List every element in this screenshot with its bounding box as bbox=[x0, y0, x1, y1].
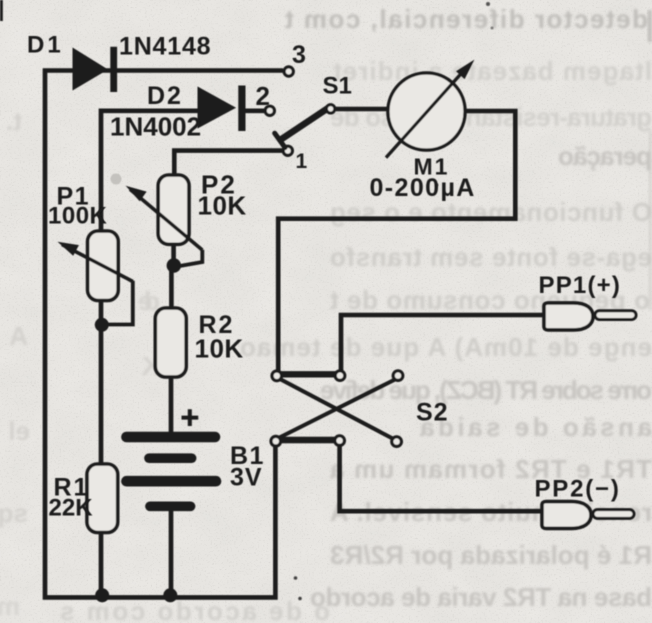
svg-text:3V: 3V bbox=[230, 464, 263, 492]
svg-text:gratura-resistando, peso de: gratura-resistando, peso de bbox=[330, 102, 652, 132]
svg-text:base na TR2 varia de acordo: base na TR2 varia de acordo bbox=[310, 582, 652, 612]
svg-text:enge de 10mA) A que de temao: enge de 10mA) A que de temao bbox=[240, 332, 652, 362]
svg-text:S2: S2 bbox=[416, 399, 449, 427]
svg-text:PP1(+): PP1(+) bbox=[539, 272, 622, 299]
svg-text:ltagem bazeate a indiret: ltagem bazeate a indiret bbox=[333, 56, 652, 86]
svg-text:3: 3 bbox=[292, 41, 306, 69]
svg-text:detector diferencial, com t: detector diferencial, com t bbox=[285, 4, 648, 34]
svg-text:10K: 10K bbox=[195, 334, 244, 364]
svg-text:1N4002: 1N4002 bbox=[110, 112, 201, 142]
svg-text:el: el bbox=[8, 416, 30, 446]
svg-text:100K: 100K bbox=[48, 203, 108, 230]
svg-text:PP2(−): PP2(−) bbox=[535, 476, 621, 503]
svg-text:22K: 22K bbox=[49, 495, 94, 522]
svg-text:D1: D1 bbox=[27, 32, 64, 59]
svg-text:1N4148: 1N4148 bbox=[119, 33, 211, 61]
svg-text:ega-se fonte sem transfo: ega-se fonte sem transfo bbox=[330, 242, 652, 272]
svg-text:m: m bbox=[0, 591, 20, 621]
svg-text:0-200µA: 0-200µA bbox=[370, 174, 476, 202]
svg-text:10K: 10K bbox=[198, 191, 247, 221]
svg-text:peração: peração bbox=[558, 141, 652, 171]
svg-text:1: 1 bbox=[296, 150, 308, 173]
svg-text:t.: t. bbox=[6, 106, 22, 136]
svg-text:A: A bbox=[9, 321, 28, 351]
svg-text:D2: D2 bbox=[147, 82, 183, 110]
svg-text:S1: S1 bbox=[323, 73, 352, 100]
svg-text:2: 2 bbox=[256, 81, 270, 111]
svg-text:sq: sq bbox=[0, 498, 28, 528]
svg-text:R1 é polarizada por R2/R3: R1 é polarizada por R2/R3 bbox=[330, 540, 652, 570]
